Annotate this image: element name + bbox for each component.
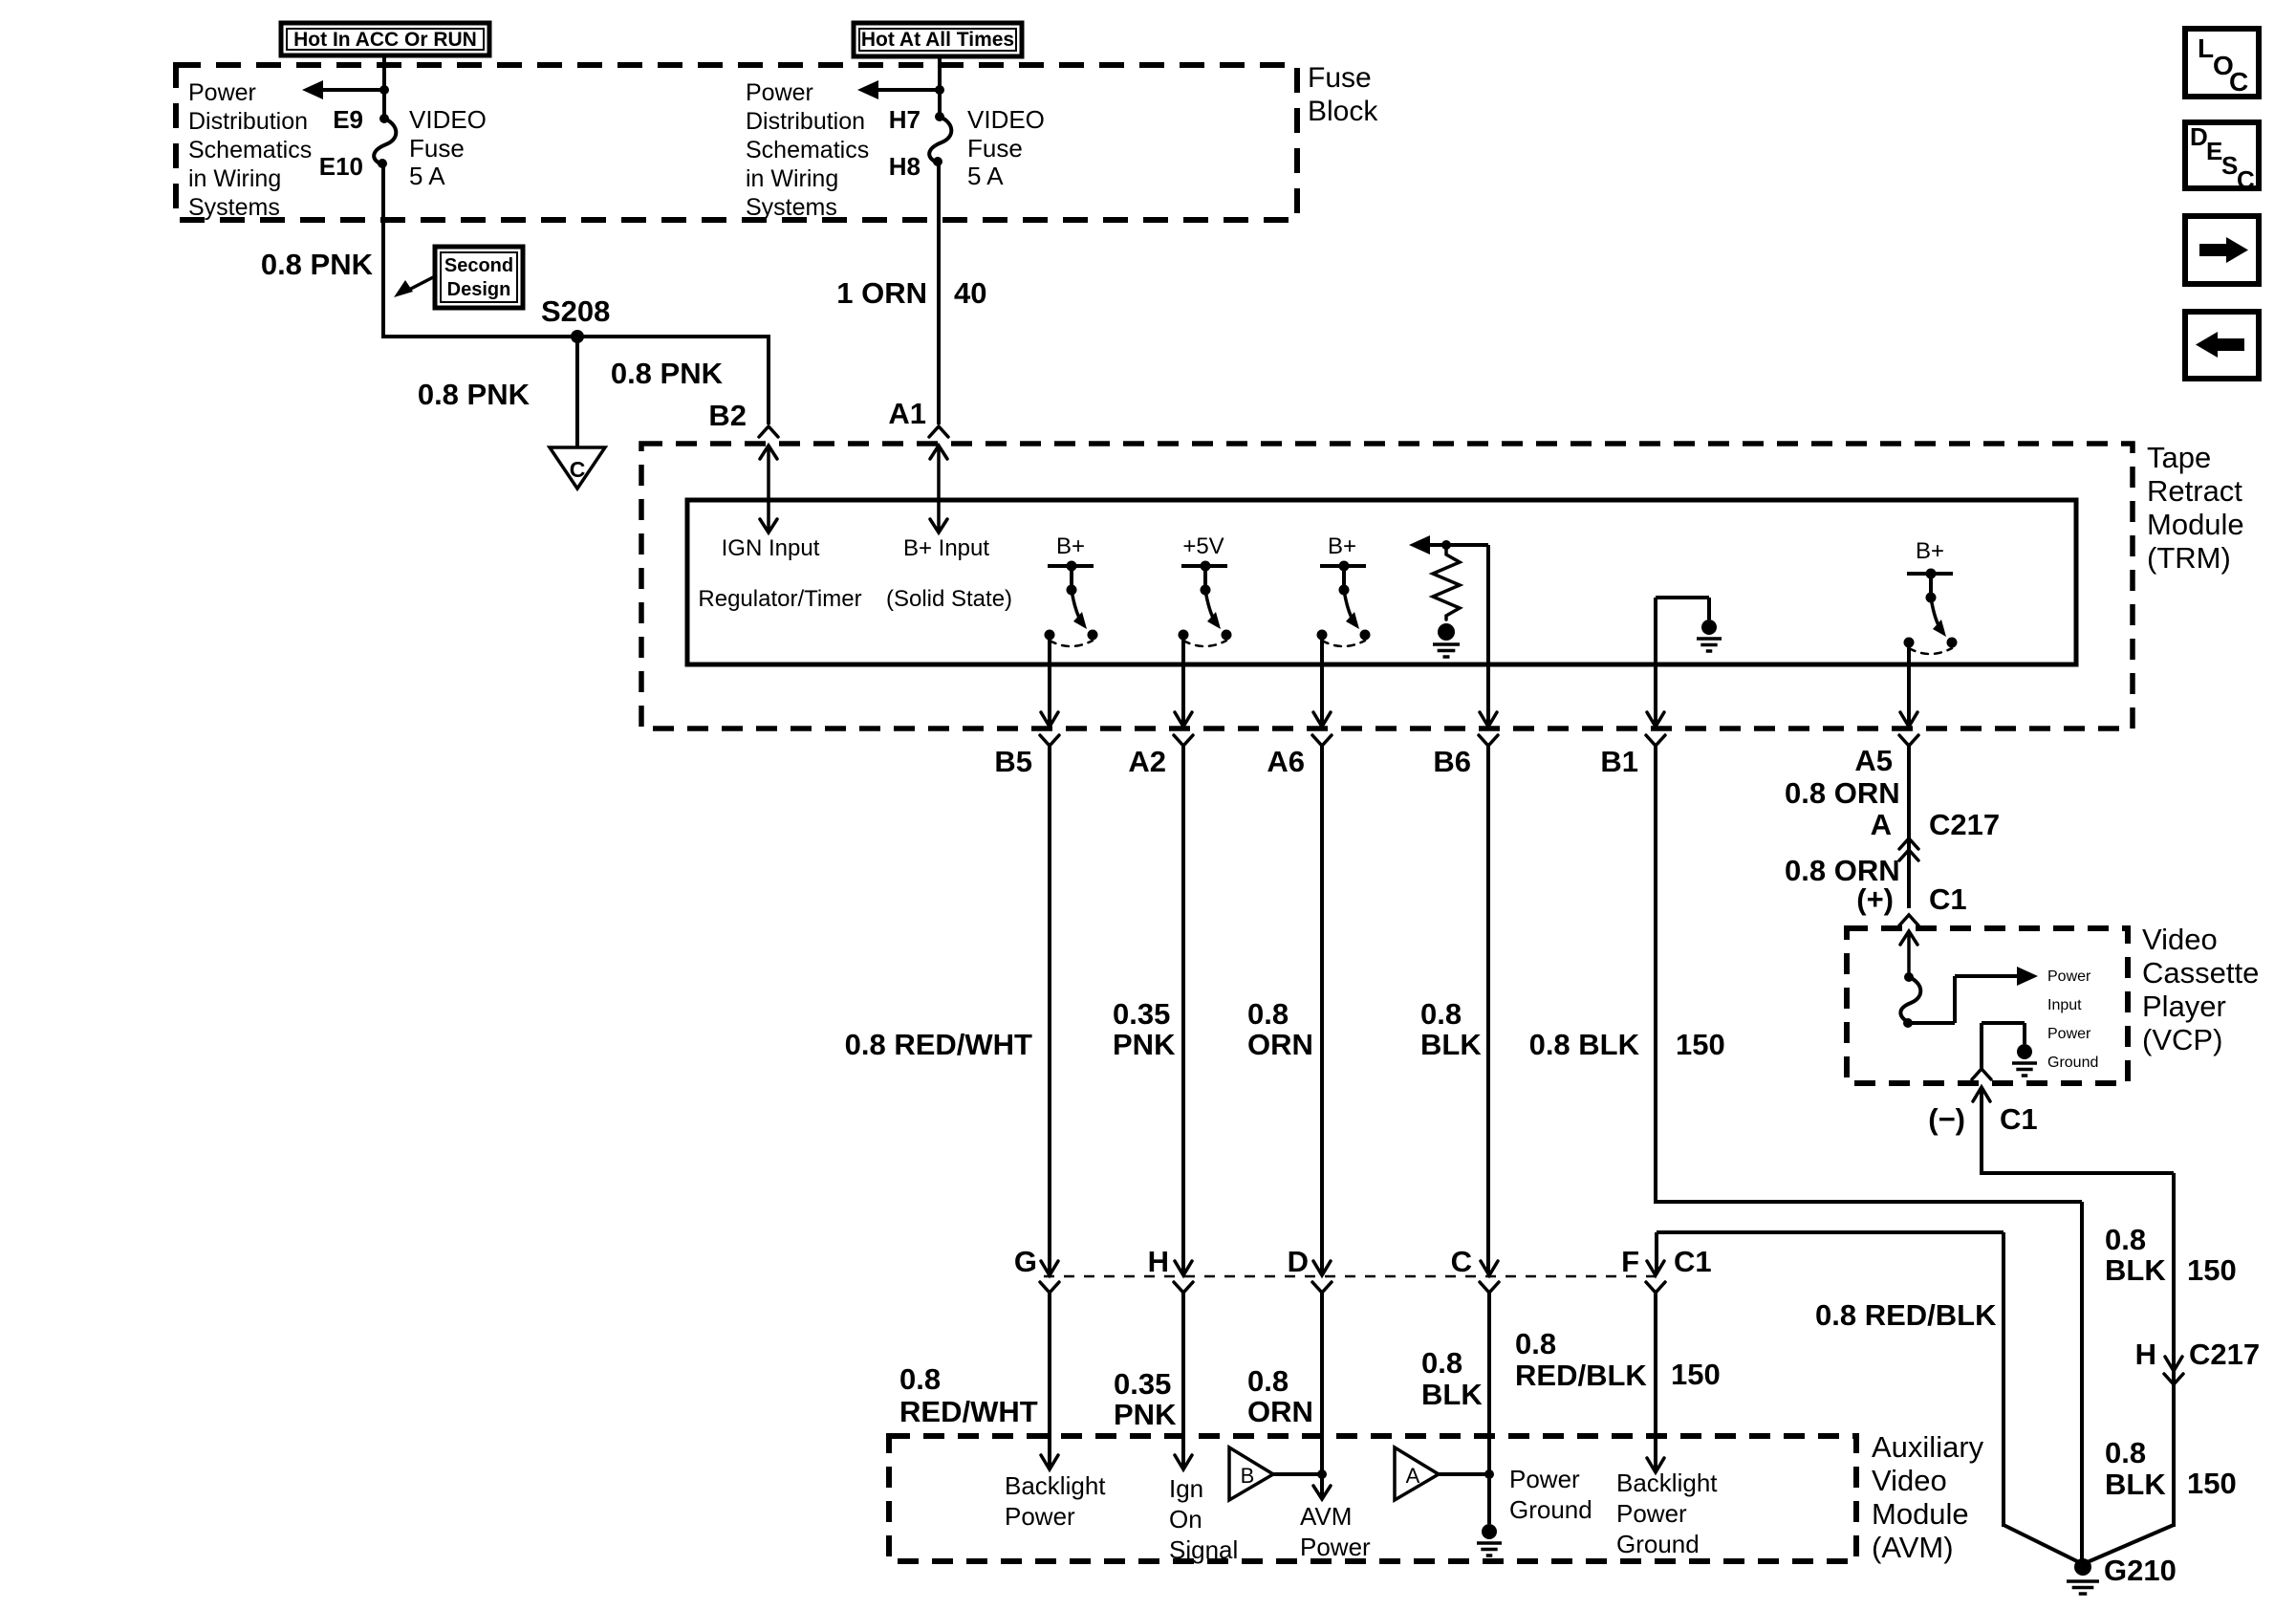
svg-text:BLK: BLK: [2105, 1468, 2166, 1501]
svg-text:AVM: AVM: [1300, 1502, 1352, 1531]
svg-text:E10: E10: [319, 152, 363, 181]
svg-text:(AVM): (AVM): [1872, 1531, 1954, 1564]
svg-text:C1: C1: [1929, 882, 1967, 916]
svg-text:G210: G210: [2104, 1554, 2177, 1587]
svg-text:B+ Input: B+ Input: [903, 535, 989, 561]
svg-text:Module: Module: [1872, 1497, 1969, 1531]
svg-text:RED/BLK: RED/BLK: [1515, 1359, 1647, 1392]
svg-text:(−): (−): [1928, 1102, 1965, 1136]
svg-text:Distribution: Distribution: [746, 108, 865, 135]
svg-text:H: H: [2135, 1338, 2156, 1371]
svg-text:B1: B1: [1600, 745, 1638, 778]
svg-text:B: B: [1241, 1464, 1255, 1488]
svg-text:E: E: [2206, 137, 2222, 165]
svg-text:A: A: [1406, 1464, 1420, 1488]
svg-text:Ign: Ign: [1169, 1474, 1203, 1503]
svg-text:5 A: 5 A: [967, 162, 1004, 190]
svg-text:Systems: Systems: [188, 194, 280, 221]
svg-text:Schematics: Schematics: [746, 137, 869, 163]
svg-text:Fuse: Fuse: [967, 134, 1023, 163]
svg-text:Power: Power: [188, 79, 256, 106]
svg-text:B+: B+: [1916, 538, 1944, 564]
svg-text:150: 150: [2187, 1467, 2237, 1500]
svg-text:Auxiliary: Auxiliary: [1872, 1430, 1984, 1464]
svg-text:Backlight: Backlight: [1616, 1469, 1718, 1497]
svg-text:C: C: [1451, 1245, 1472, 1278]
svg-text:PNK: PNK: [1113, 1028, 1176, 1061]
svg-text:0.8: 0.8: [1421, 1346, 1462, 1380]
svg-text:(+): (+): [1856, 882, 1894, 916]
svg-text:1 ORN: 1 ORN: [836, 276, 927, 310]
svg-text:Tape: Tape: [2147, 441, 2211, 474]
svg-text:C217: C217: [2189, 1338, 2260, 1371]
svg-text:H7: H7: [889, 105, 921, 134]
svg-text:0.8 RED/BLK: 0.8 RED/BLK: [1815, 1298, 1997, 1332]
svg-text:C217: C217: [1929, 808, 2000, 841]
svg-text:0.8: 0.8: [1420, 997, 1462, 1031]
svg-text:5 A: 5 A: [409, 162, 445, 190]
svg-text:0.8: 0.8: [2105, 1223, 2146, 1256]
svg-text:Player: Player: [2142, 990, 2226, 1023]
svg-text:H8: H8: [889, 152, 921, 181]
svg-text:C: C: [2229, 67, 2248, 97]
svg-text:0.8 ORN: 0.8 ORN: [1785, 776, 1900, 810]
svg-text:D: D: [2190, 122, 2208, 151]
svg-text:B5: B5: [994, 745, 1032, 778]
svg-text:Hot At All Times: Hot At All Times: [861, 29, 1014, 51]
svg-text:Ground: Ground: [1509, 1495, 1592, 1524]
svg-text:0.35: 0.35: [1113, 997, 1170, 1031]
svg-text:B2: B2: [708, 399, 747, 432]
svg-text:A6: A6: [1267, 745, 1305, 778]
svg-text:0.8: 0.8: [2105, 1436, 2146, 1469]
svg-text:Fuse: Fuse: [409, 134, 465, 163]
svg-text:Power: Power: [1300, 1533, 1371, 1561]
svg-text:Signal: Signal: [1169, 1535, 1238, 1564]
svg-text:150: 150: [2187, 1253, 2237, 1287]
svg-text:S208: S208: [541, 294, 610, 328]
svg-text:RED/WHT: RED/WHT: [899, 1395, 1038, 1428]
svg-text:Power: Power: [2047, 1026, 2091, 1042]
svg-text:VIDEO: VIDEO: [409, 105, 487, 134]
svg-text:A: A: [1871, 808, 1892, 841]
svg-text:150: 150: [1676, 1028, 1725, 1061]
svg-text:0.8: 0.8: [1247, 1364, 1289, 1398]
svg-text:0.35: 0.35: [1114, 1367, 1171, 1401]
svg-text:Backlight: Backlight: [1005, 1471, 1106, 1500]
svg-text:Power: Power: [1616, 1499, 1687, 1528]
svg-text:0.8: 0.8: [899, 1362, 941, 1396]
svg-text:Ground: Ground: [2047, 1055, 2098, 1071]
svg-text:C1: C1: [1674, 1245, 1712, 1278]
svg-text:Fuse: Fuse: [1308, 62, 1372, 94]
svg-text:C: C: [570, 457, 586, 482]
svg-text:Retract: Retract: [2147, 474, 2242, 508]
svg-text:A1: A1: [888, 397, 926, 430]
svg-text:Power: Power: [2047, 968, 2091, 985]
svg-text:0.8 BLK: 0.8 BLK: [1529, 1028, 1640, 1061]
svg-text:B+: B+: [1328, 533, 1356, 559]
svg-text:ORN: ORN: [1247, 1395, 1313, 1428]
svg-text:Second: Second: [444, 255, 513, 276]
svg-text:0.8 PNK: 0.8 PNK: [261, 248, 374, 281]
svg-text:ORN: ORN: [1247, 1028, 1313, 1061]
svg-text:B+: B+: [1056, 533, 1085, 559]
svg-text:D: D: [1288, 1245, 1309, 1278]
svg-text:Hot In ACC Or RUN: Hot In ACC Or RUN: [293, 29, 477, 51]
svg-text:B6: B6: [1433, 745, 1471, 778]
svg-text:150: 150: [1671, 1358, 1721, 1391]
svg-text:PNK: PNK: [1114, 1398, 1177, 1431]
svg-text:+5V: +5V: [1182, 533, 1224, 559]
svg-text:0.8 PNK: 0.8 PNK: [418, 378, 531, 411]
svg-text:A2: A2: [1128, 745, 1166, 778]
svg-text:Ground: Ground: [1616, 1530, 1700, 1558]
svg-text:Power: Power: [1005, 1502, 1075, 1531]
svg-text:C1: C1: [2000, 1102, 2038, 1136]
svg-text:F: F: [1621, 1245, 1639, 1278]
svg-text:Distribution: Distribution: [188, 108, 308, 135]
svg-text:Block: Block: [1308, 96, 1378, 127]
svg-text:E9: E9: [333, 105, 363, 134]
svg-text:C: C: [2237, 165, 2255, 194]
svg-text:Power: Power: [1509, 1465, 1580, 1493]
svg-text:0.8 RED/WHT: 0.8 RED/WHT: [845, 1028, 1032, 1061]
svg-text:in Wiring: in Wiring: [746, 165, 838, 192]
svg-text:Video: Video: [2142, 923, 2218, 956]
svg-text:L: L: [2198, 33, 2214, 63]
svg-text:A5: A5: [1854, 744, 1893, 777]
svg-text:in Wiring: in Wiring: [188, 165, 281, 192]
svg-text:BLK: BLK: [2105, 1253, 2166, 1287]
svg-text:IGN Input: IGN Input: [722, 535, 820, 561]
svg-text:BLK: BLK: [1421, 1378, 1483, 1411]
svg-text:40: 40: [954, 276, 986, 310]
svg-text:0.8 PNK: 0.8 PNK: [611, 357, 724, 390]
svg-text:VIDEO: VIDEO: [967, 105, 1045, 134]
svg-text:Video: Video: [1872, 1464, 1947, 1497]
svg-text:BLK: BLK: [1420, 1028, 1482, 1061]
svg-text:(VCP): (VCP): [2142, 1023, 2222, 1056]
svg-text:Power: Power: [746, 79, 813, 106]
svg-text:0.8: 0.8: [1247, 997, 1289, 1031]
svg-text:Systems: Systems: [746, 194, 837, 221]
svg-text:Module: Module: [2147, 508, 2244, 541]
svg-text:(TRM): (TRM): [2147, 541, 2231, 575]
svg-text:Input: Input: [2047, 997, 2082, 1013]
svg-text:Schematics: Schematics: [188, 137, 312, 163]
svg-text:(Solid State): (Solid State): [886, 586, 1012, 612]
svg-text:Design: Design: [447, 279, 511, 300]
svg-text:0.8: 0.8: [1515, 1327, 1556, 1360]
svg-text:S: S: [2221, 151, 2238, 180]
svg-text:On: On: [1169, 1505, 1202, 1534]
svg-text:Cassette: Cassette: [2142, 956, 2259, 990]
svg-text:H: H: [1148, 1245, 1169, 1278]
svg-text:G: G: [1014, 1245, 1037, 1278]
svg-text:Regulator/Timer: Regulator/Timer: [698, 586, 861, 612]
